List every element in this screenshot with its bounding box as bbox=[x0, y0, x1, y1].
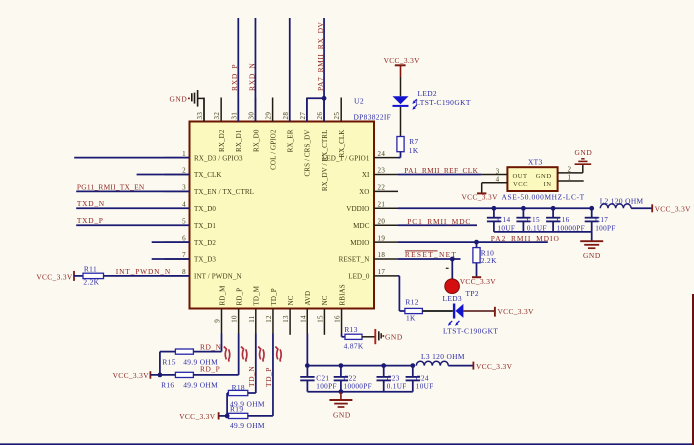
ground GND (C14-C17) bbox=[580, 232, 603, 260]
pin 32 RX_D2 (top) bbox=[213, 98, 226, 152]
differential pair directive 3 bbox=[258, 347, 264, 362]
capacitor C23 0.1UF bbox=[377, 363, 407, 392]
wire pin 23 to XT3 bbox=[398, 174, 482, 176]
pin 14 AVD (bottom) bbox=[299, 291, 312, 334]
net label TD_N bbox=[247, 366, 256, 387]
wire AVD rail bbox=[307, 365, 412, 367]
svg-text:2.2K: 2.2K bbox=[481, 256, 497, 265]
svg-text:VCC_3.3V: VCC_3.3V bbox=[384, 56, 421, 65]
svg-text:VCC_3.3V: VCC_3.3V bbox=[36, 273, 73, 282]
pin 28 RX_ER (top) bbox=[282, 98, 295, 153]
junction AVD bbox=[305, 363, 310, 368]
svg-text:26: 26 bbox=[316, 112, 324, 120]
svg-text:TX_D2: TX_D2 bbox=[194, 239, 216, 247]
svg-text:3: 3 bbox=[496, 167, 500, 175]
svg-text:30: 30 bbox=[247, 112, 255, 120]
svg-text:18: 18 bbox=[378, 251, 386, 259]
power VCC_3.3V (R10) bbox=[460, 277, 497, 286]
svg-text:2: 2 bbox=[568, 165, 572, 173]
svg-text:C14: C14 bbox=[497, 216, 510, 224]
pin 6 TX_D2 bbox=[165, 234, 217, 247]
svg-text:R16: R16 bbox=[161, 381, 174, 390]
net label PG11_RMII_TX_EN bbox=[77, 182, 145, 191]
svg-text:NC: NC bbox=[287, 295, 295, 305]
wire pin 16 to R13 bbox=[342, 334, 345, 337]
svg-text:C17: C17 bbox=[595, 216, 608, 224]
inductor L3 120 OHM bbox=[416, 352, 465, 365]
capacitor C24 10UF bbox=[406, 363, 434, 392]
wire R10 to VCC bbox=[476, 263, 478, 277]
label LED3 bbox=[443, 294, 462, 303]
wire pin 19 MDIO bbox=[398, 241, 548, 243]
svg-text:TX_D3: TX_D3 bbox=[194, 256, 216, 264]
wire pin 10 down bbox=[238, 334, 240, 375]
svg-text:49.9 OHM: 49.9 OHM bbox=[183, 381, 218, 390]
svg-text:TX_CLK: TX_CLK bbox=[194, 171, 222, 179]
ground GND (XT3 pin 2) bbox=[575, 148, 593, 173]
pin 31 RX_D1 (top) bbox=[230, 98, 243, 152]
pin 2 TX_CLK bbox=[165, 167, 223, 180]
wire pin 28 RX_ER bbox=[289, 18, 291, 122]
svg-text:2.2K: 2.2K bbox=[83, 278, 99, 287]
svg-text:GND: GND bbox=[333, 410, 351, 419]
svg-text:PC1_RMII_MDC: PC1_RMII_MDC bbox=[407, 217, 471, 226]
svg-text:R13: R13 bbox=[344, 325, 357, 334]
wire R19 to pin 12 bbox=[248, 415, 273, 417]
svg-text:32: 32 bbox=[213, 112, 221, 120]
resistor R7 bbox=[397, 137, 419, 155]
value DP83822IF bbox=[354, 113, 392, 122]
pin 4 VCC (XT3) bbox=[482, 176, 508, 184]
wire R12 to LED3 bbox=[422, 310, 453, 312]
svg-text:10000PF: 10000PF bbox=[344, 383, 372, 391]
resistor R18 bbox=[228, 383, 265, 409]
svg-text:PA2_RMII_MDIO: PA2_RMII_MDIO bbox=[491, 234, 560, 243]
pin 8 INT / PWDN_N bbox=[165, 268, 242, 281]
LED LED2 bbox=[393, 96, 417, 110]
svg-text:R18: R18 bbox=[232, 383, 245, 392]
svg-text:TX_D0: TX_D0 bbox=[194, 205, 216, 213]
svg-text:9: 9 bbox=[214, 319, 222, 323]
svg-text:100PF: 100PF bbox=[595, 224, 616, 232]
svg-text:25: 25 bbox=[333, 112, 341, 120]
LED LED3 bbox=[448, 304, 464, 326]
svg-text:R19: R19 bbox=[230, 404, 243, 413]
svg-text:RBIAS: RBIAS bbox=[338, 284, 346, 305]
pin 3 OUT (XT3) bbox=[482, 167, 508, 175]
svg-text:VCC: VCC bbox=[513, 181, 528, 188]
capacitor C17 100PF bbox=[585, 206, 616, 232]
svg-text:L2 120 OHM: L2 120 OHM bbox=[600, 196, 644, 205]
ground GND (pin 33) bbox=[169, 90, 197, 107]
svg-text:29: 29 bbox=[265, 112, 273, 120]
power VCC_3.3V (L2) bbox=[652, 204, 691, 213]
svg-text:1: 1 bbox=[568, 174, 572, 182]
wire pin 30 RXD_N bbox=[254, 18, 256, 122]
resistor R15 bbox=[162, 349, 218, 367]
svg-text:XI: XI bbox=[362, 171, 370, 179]
resistor R16 bbox=[161, 372, 218, 389]
junction TP2 bbox=[450, 257, 455, 262]
svg-text:DP83822IF: DP83822IF bbox=[354, 113, 392, 122]
svg-text:5: 5 bbox=[182, 217, 186, 225]
differential pair directive 4 bbox=[275, 347, 281, 362]
svg-text:VCC_3.3V: VCC_3.3V bbox=[498, 307, 535, 316]
wire R15 left bbox=[160, 352, 176, 375]
net label TD_P bbox=[264, 367, 273, 387]
power VCC_3.3V (XT3 pin 4) bbox=[462, 183, 499, 202]
wire VCC to R16 bbox=[150, 374, 175, 376]
svg-text:3: 3 bbox=[182, 184, 186, 192]
svg-text:RX_D1: RX_D1 bbox=[235, 129, 243, 152]
resistor R19 bbox=[228, 404, 265, 430]
svg-text:RD_N: RD_N bbox=[200, 342, 222, 351]
wire pin 11 down bbox=[255, 334, 257, 394]
svg-text:ASE-50.000MHZ-LC-T: ASE-50.000MHZ-LC-T bbox=[502, 192, 585, 201]
power VCC_3.3V (R11) bbox=[36, 271, 74, 282]
pin 9 RD_M (bottom) bbox=[214, 285, 227, 334]
svg-text:PA1_RMII_REF_CLK: PA1_RMII_REF_CLK bbox=[404, 166, 478, 175]
svg-text:C21: C21 bbox=[316, 375, 329, 383]
svg-text:4: 4 bbox=[182, 201, 186, 209]
pin 11 TD_M (bottom) bbox=[248, 285, 261, 333]
wire VCC to R11 bbox=[74, 275, 83, 277]
svg-text:TD_P: TD_P bbox=[264, 367, 273, 387]
wire C14-C17 bottom rail bbox=[494, 231, 592, 233]
svg-text:RX_D0: RX_D0 bbox=[252, 129, 260, 152]
pin 24 LED_1 / GPIO1 bbox=[322, 150, 398, 163]
svg-text:RXD_N: RXD_N bbox=[247, 62, 256, 91]
svg-text:AVD: AVD bbox=[304, 291, 312, 306]
wire pin 3 TX_EN bbox=[76, 190, 189, 192]
wire R11 to pin 8 bbox=[104, 275, 190, 277]
power VCC_3.3V (LED2) bbox=[384, 56, 421, 77]
svg-text:RD_P: RD_P bbox=[235, 288, 243, 306]
sheet bottom border line bbox=[0, 443, 694, 445]
pin 12 TD_P (bottom) bbox=[265, 288, 278, 333]
svg-text:GND: GND bbox=[575, 148, 593, 157]
capacitor C15 0.1UF bbox=[516, 206, 546, 232]
svg-text:12: 12 bbox=[265, 315, 273, 323]
capacitor C22 10000PF bbox=[334, 363, 372, 392]
svg-text:13: 13 bbox=[282, 315, 290, 323]
svg-text:VCC_3.3V: VCC_3.3V bbox=[476, 362, 513, 371]
svg-text:VCC_3.3V: VCC_3.3V bbox=[655, 204, 692, 213]
wire pin 14 AVD down bbox=[306, 334, 308, 366]
pin 7 TX_D3 bbox=[165, 251, 217, 264]
svg-text:PG11_RMII_TX_EN: PG11_RMII_TX_EN bbox=[77, 182, 145, 191]
svg-text:MDIO: MDIO bbox=[350, 239, 369, 247]
svg-text:R11: R11 bbox=[84, 265, 97, 274]
capacitor C21 100PF bbox=[300, 366, 337, 392]
wire pin 20 MDC bbox=[398, 224, 477, 226]
pin 18 RESET_N bbox=[339, 251, 398, 264]
differential pair directive 1 bbox=[224, 347, 230, 362]
svg-text:1K: 1K bbox=[409, 146, 419, 155]
wire RD_N bbox=[193, 351, 221, 353]
pin 10 RD_P (bottom) bbox=[231, 288, 244, 334]
svg-text:XO: XO bbox=[359, 188, 369, 196]
svg-text:LED_0: LED_0 bbox=[348, 273, 370, 281]
test point TP2 bbox=[445, 268, 479, 298]
svg-text:RX_CLK: RX_CLK bbox=[338, 129, 346, 158]
svg-text:1K: 1K bbox=[406, 314, 416, 323]
pin 2 GND (XT3) bbox=[558, 165, 583, 173]
svg-text:R12: R12 bbox=[405, 298, 418, 307]
pin 26 RX_DV / RX_CTRL (top) bbox=[316, 98, 329, 192]
svg-text:C24: C24 bbox=[416, 375, 429, 383]
wire pin 9 down bbox=[221, 334, 223, 352]
svg-text:RXD_P: RXD_P bbox=[230, 64, 239, 91]
svg-text:LTST-C190GKT: LTST-C190GKT bbox=[443, 326, 498, 335]
wire pin 7 TX_D3 bbox=[152, 258, 190, 260]
pin 21 VDDIO bbox=[346, 201, 398, 214]
designator U2 bbox=[354, 97, 364, 106]
svg-text:XT3: XT3 bbox=[528, 157, 543, 166]
svg-text:31: 31 bbox=[230, 112, 238, 120]
svg-text:22: 22 bbox=[378, 184, 386, 192]
power VCC_3.3V (R15/R16) bbox=[113, 371, 151, 380]
svg-text:INT / PWDN_N: INT / PWDN_N bbox=[194, 273, 242, 281]
svg-text:RX_D2: RX_D2 bbox=[218, 129, 226, 152]
pin 20 MDC bbox=[353, 217, 398, 230]
svg-text:INT_PWDN_N: INT_PWDN_N bbox=[116, 267, 171, 276]
junction pins 26/27 bbox=[322, 96, 327, 101]
svg-text:C15: C15 bbox=[527, 216, 540, 224]
inductor L2 120 OHM bbox=[600, 196, 644, 208]
power VCC_3.3V (R18/R19) bbox=[179, 412, 218, 421]
svg-text:20: 20 bbox=[378, 217, 386, 225]
svg-text:COL / GPIO2: COL / GPIO2 bbox=[269, 129, 277, 170]
net label INT_PWDN_N bbox=[116, 267, 171, 276]
wire pin 6 TX_D2 bbox=[152, 241, 190, 243]
svg-text:LTST-C190GKT: LTST-C190GKT bbox=[416, 98, 471, 107]
ground GND (C21-C24) bbox=[329, 392, 352, 420]
resistor R10 bbox=[473, 248, 497, 265]
pin 3 TX_EN / TX_CTRL bbox=[165, 184, 255, 197]
wire C21-C24 bottom rail bbox=[307, 391, 412, 393]
net label RD_N bbox=[200, 342, 222, 351]
svg-text:VDDIO: VDDIO bbox=[346, 205, 369, 213]
svg-text:TD_M: TD_M bbox=[253, 285, 261, 305]
svg-text:RX_D3 / GPIO3: RX_D3 / GPIO3 bbox=[194, 154, 243, 162]
value LTST-C190GKT (LED2) bbox=[416, 98, 471, 107]
power VCC_3.3V (LED3) bbox=[495, 307, 534, 317]
wire pin 27 to pin 26 bbox=[307, 98, 324, 121]
svg-text:21: 21 bbox=[378, 201, 386, 209]
label LED2 bbox=[418, 89, 437, 98]
svg-text:C23: C23 bbox=[387, 375, 400, 383]
pin 1 IN (XT3) bbox=[558, 174, 584, 182]
svg-text:27: 27 bbox=[299, 112, 307, 120]
net label TXD_N bbox=[77, 199, 105, 208]
wire L3 to VCC bbox=[448, 365, 473, 367]
pin 1 RX_D3 / GPIO3 bbox=[165, 150, 244, 163]
wire pin 18 RESET_N bbox=[398, 258, 461, 260]
resistor R12 bbox=[405, 298, 423, 323]
pin 27 CRS / CRS_DV (top) bbox=[299, 98, 312, 177]
wire GND to pin 33 bbox=[198, 98, 204, 121]
wire pin 4 TX_D0 bbox=[76, 207, 189, 209]
svg-text:IN: IN bbox=[544, 181, 552, 188]
svg-text:VCC_3.3V: VCC_3.3V bbox=[462, 193, 499, 202]
svg-text:RESET_NET: RESET_NET bbox=[405, 250, 457, 259]
net label RD_P bbox=[200, 365, 220, 374]
wire VDDIO rail bbox=[398, 207, 592, 209]
wire pin 17 to R12 bbox=[398, 276, 405, 311]
designator XT3 bbox=[528, 157, 543, 166]
svg-text:PA7_RMII_RX_DV: PA7_RMII_RX_DV bbox=[316, 21, 325, 91]
value ASE-50.000MHZ-LC-T bbox=[502, 192, 585, 201]
junction R10/MDIO bbox=[474, 240, 479, 245]
svg-text:C22: C22 bbox=[344, 375, 357, 383]
svg-text:VCC_3.3V: VCC_3.3V bbox=[179, 412, 216, 421]
junction C22 GND bbox=[339, 389, 344, 394]
svg-text:GND: GND bbox=[583, 251, 601, 260]
svg-text:6: 6 bbox=[182, 234, 186, 242]
net label PA7_RMII_RX_DV bbox=[316, 21, 325, 91]
svg-text:8: 8 bbox=[182, 268, 186, 276]
svg-text:NC: NC bbox=[321, 295, 329, 305]
svg-text:11: 11 bbox=[248, 315, 256, 323]
net label PA1_RMII_REF_CLK bbox=[404, 166, 478, 175]
wire RESET to TP2 bbox=[451, 259, 453, 279]
svg-text:4.87K: 4.87K bbox=[344, 341, 364, 350]
svg-text:U2: U2 bbox=[354, 97, 364, 106]
resistor R11 bbox=[83, 265, 104, 287]
svg-text:TD_P: TD_P bbox=[270, 288, 278, 305]
wire VCC to LED2 bbox=[400, 77, 402, 96]
capacitor C14 10UF bbox=[487, 206, 515, 232]
wire pin 5 TX_D1 bbox=[76, 224, 189, 226]
wire LED2 to R7 bbox=[400, 107, 402, 137]
wire pin 12 down bbox=[272, 334, 274, 416]
svg-text:16: 16 bbox=[334, 315, 342, 323]
svg-text:RD_M: RD_M bbox=[218, 285, 226, 306]
net label RXD_N bbox=[247, 62, 256, 91]
pin 23 XI bbox=[362, 167, 398, 180]
svg-text:0.1UF: 0.1UF bbox=[387, 383, 407, 391]
svg-text:GND: GND bbox=[536, 173, 552, 180]
value LTST-C190GKT (LED3) bbox=[443, 326, 498, 335]
svg-text:10: 10 bbox=[231, 315, 239, 323]
net label RXD_P bbox=[230, 64, 239, 91]
svg-text:TD_N: TD_N bbox=[247, 366, 256, 387]
net label PA2_RMII_MDIO bbox=[491, 234, 560, 243]
wire pin 1 RX_D3 bbox=[74, 157, 189, 159]
svg-text:7: 7 bbox=[182, 251, 186, 259]
IC U2 DP83822IF body bbox=[190, 122, 375, 309]
svg-text:TX_D1: TX_D1 bbox=[194, 222, 216, 230]
svg-text:RESET_N: RESET_N bbox=[339, 256, 370, 264]
wire R18 to pin 11 bbox=[248, 392, 256, 394]
svg-text:49.9 OHM: 49.9 OHM bbox=[230, 421, 265, 430]
pin 17 LED_0 bbox=[348, 268, 398, 281]
ground GND (R13) bbox=[375, 329, 403, 344]
pin 22 XO bbox=[359, 184, 398, 197]
svg-text:RX_DV / RX_CTRL: RX_DV / RX_CTRL bbox=[321, 130, 329, 192]
pin 25 RX_CLK (top) bbox=[333, 98, 346, 158]
svg-text:TP2: TP2 bbox=[466, 289, 479, 298]
svg-text:TX_EN / TX_CTRL: TX_EN / TX_CTRL bbox=[194, 188, 254, 196]
pin 19 MDIO bbox=[350, 234, 398, 247]
svg-text:LED3: LED3 bbox=[443, 294, 462, 303]
svg-text:GND: GND bbox=[385, 332, 403, 341]
svg-text:28: 28 bbox=[282, 112, 290, 120]
svg-text:R15: R15 bbox=[162, 358, 175, 367]
junction R15/R16 bbox=[158, 373, 163, 378]
wire MDIO to R10 bbox=[476, 242, 478, 248]
svg-text:L3 120 OHM: L3 120 OHM bbox=[421, 352, 465, 361]
svg-text:TXD_N: TXD_N bbox=[77, 199, 105, 208]
svg-text:23: 23 bbox=[378, 167, 386, 175]
svg-text:VCC_3.3V: VCC_3.3V bbox=[113, 371, 150, 380]
svg-text:CRS / CRS_DV: CRS / CRS_DV bbox=[304, 129, 312, 177]
net label PC1_RMII_MDC bbox=[407, 217, 471, 226]
pin 33 (top) bbox=[196, 98, 204, 122]
pin 16 RBIAS (bottom) bbox=[334, 284, 347, 333]
svg-text:15: 15 bbox=[316, 315, 324, 323]
pin 29 COL / GPIO2 (top) bbox=[265, 98, 278, 170]
wire R13 to GND bbox=[362, 336, 375, 338]
net label RESET_NET bbox=[405, 250, 457, 259]
crystal oscillator XT3 body bbox=[507, 167, 557, 191]
pin 13 NC (bottom) bbox=[282, 295, 295, 334]
svg-text:RX_ER: RX_ER bbox=[287, 129, 295, 152]
svg-text:GND: GND bbox=[169, 95, 187, 104]
differential pair directive 2 bbox=[241, 347, 247, 362]
svg-text:OUT: OUT bbox=[513, 173, 528, 180]
wire pin 2 TX_CLK bbox=[137, 174, 190, 176]
wire pin 31 RXD_P bbox=[237, 18, 239, 122]
resistor R13 bbox=[344, 325, 364, 351]
wire R18/R19 left join bbox=[219, 393, 229, 416]
svg-text:14: 14 bbox=[299, 315, 307, 323]
svg-text:TXD_P: TXD_P bbox=[77, 216, 104, 225]
svg-text:RD_P: RD_P bbox=[200, 365, 220, 374]
pin 4 TX_D0 bbox=[165, 201, 217, 214]
svg-text:2: 2 bbox=[182, 167, 186, 175]
svg-text:33: 33 bbox=[196, 112, 204, 120]
svg-text:100PF: 100PF bbox=[316, 383, 337, 391]
capacitor C16 10000PF bbox=[546, 206, 585, 232]
svg-text:VCC_3.3V: VCC_3.3V bbox=[460, 277, 497, 286]
wire L2 to VCC bbox=[631, 207, 652, 209]
svg-text:19: 19 bbox=[378, 234, 386, 242]
svg-text:4: 4 bbox=[496, 176, 500, 184]
pin 5 TX_D1 bbox=[165, 217, 217, 230]
sheet right border line bbox=[692, 294, 694, 445]
svg-text:17: 17 bbox=[378, 268, 386, 276]
svg-text:24: 24 bbox=[378, 150, 386, 158]
wire R7 to pin 24 bbox=[398, 152, 401, 158]
wire LED3 to VCC bbox=[463, 310, 494, 312]
svg-text:1: 1 bbox=[182, 150, 186, 158]
power VCC_3.3V (L3) bbox=[473, 362, 512, 371]
net label TXD_P bbox=[77, 216, 104, 225]
junction R18/R19 bbox=[225, 414, 230, 419]
pin 15 NC (bottom) bbox=[316, 295, 329, 334]
pin 30 RX_D0 (top) bbox=[247, 98, 260, 152]
svg-text:10UF: 10UF bbox=[416, 383, 434, 391]
svg-text:MDC: MDC bbox=[353, 222, 370, 230]
svg-text:C16: C16 bbox=[557, 216, 570, 224]
wire RD_P bbox=[193, 374, 238, 376]
wire pin 26 PA7_RMII_RX_DV bbox=[323, 18, 325, 122]
